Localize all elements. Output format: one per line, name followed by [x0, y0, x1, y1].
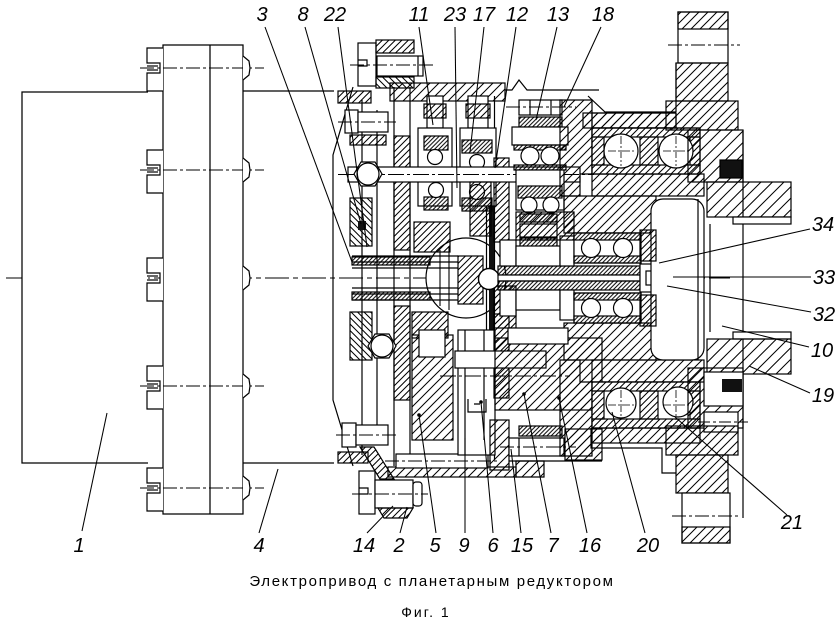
- bolt D head slot: [359, 488, 368, 494]
- carrier arm upper: [414, 222, 450, 252]
- seal target 8: [358, 221, 366, 230]
- leader 23: [455, 27, 457, 188]
- small bearing lower ball2: [614, 299, 633, 318]
- bolt row y=170 notch: [147, 150, 163, 193]
- brake adjuster lower: [371, 335, 393, 357]
- bolt D end cap: [413, 482, 422, 506]
- bottom foot column: [676, 455, 728, 493]
- stack neck cap1: [424, 104, 446, 118]
- gear13 cap bottom: [514, 165, 566, 170]
- leader 12: [495, 27, 516, 168]
- gear13 hub white row: [520, 224, 557, 237]
- bottom step wedge: [516, 461, 544, 477]
- svg-text:10: 10: [811, 340, 833, 362]
- output shaft lower band: [498, 281, 640, 290]
- bolt B axis: [338, 121, 396, 123]
- bottom hatch strip: [388, 467, 516, 477]
- housing left of lower big bearing: [560, 360, 592, 456]
- hatched pad lower: [350, 312, 372, 360]
- stack2 ball2: [470, 185, 485, 200]
- stack1 ball2: [429, 183, 444, 198]
- top housing bump: [505, 80, 599, 90]
- leader 8: [305, 27, 361, 224]
- stack2 hatch band1: [462, 140, 492, 153]
- bolt D hatched tip: [378, 508, 413, 518]
- big bearing lower ball2 cross: [663, 404, 689, 406]
- svg-text:32: 32: [813, 304, 835, 326]
- svg-text:21: 21: [780, 512, 803, 534]
- bolt A shaft end: [417, 56, 419, 76]
- sun shaft wall hatch lower: [494, 314, 509, 398]
- leader 7: [524, 394, 551, 533]
- stack2 ball1: [470, 155, 485, 170]
- small bearing upper cap top: [574, 233, 641, 240]
- seal dark lower: [722, 379, 742, 392]
- bottom bolt row E: [396, 454, 488, 468]
- bearing underslab extra: [592, 428, 700, 443]
- pin axis upper: [338, 174, 594, 176]
- leader 4: [259, 469, 278, 533]
- svg-text:15: 15: [511, 535, 534, 557]
- small bearing lower cap bottom: [574, 316, 641, 323]
- bolt A head slot: [358, 60, 367, 66]
- seal housing lower: [704, 372, 743, 406]
- planet stack1 neck: [427, 96, 443, 128]
- carrier pin bar lower: [455, 351, 546, 368]
- stack1 hatch band2: [424, 197, 448, 210]
- big bearing upper ball1 cross: [608, 150, 634, 152]
- top foot column: [676, 63, 728, 101]
- support rib hatch: [360, 447, 394, 479]
- svg-text:17: 17: [473, 4, 496, 26]
- svg-text:19: 19: [812, 385, 834, 407]
- carrier pin bar upper: [348, 167, 580, 182]
- bolt row y=170 axis: [140, 169, 264, 171]
- leader 32: [667, 286, 811, 312]
- bolt B head: [345, 110, 358, 133]
- leader 33: [673, 276, 811, 278]
- svg-text:22: 22: [323, 4, 346, 26]
- horn top hatch: [707, 182, 791, 217]
- spline hatch upper: [352, 257, 430, 265]
- spacer mid hatch upper: [516, 212, 574, 240]
- gear13 column: [516, 170, 564, 210]
- bolt row y=278 head right: [243, 266, 250, 290]
- bolt row y=488 axis: [140, 487, 264, 489]
- CV joint cavity: [426, 238, 506, 318]
- stack2 hub hatch: [470, 182, 491, 236]
- planet stack2 body upper: [460, 128, 496, 206]
- lower sun gear bolt: [509, 438, 564, 456]
- svg-text:33: 33: [813, 267, 835, 289]
- gear13 axis: [506, 106, 576, 108]
- leader 18: [564, 27, 601, 107]
- lower gear axis: [500, 446, 576, 448]
- shaft tip end: [662, 268, 669, 288]
- plug bolt lower: [704, 412, 738, 432]
- CV cage hatch: [458, 256, 483, 304]
- small bearing lower box: [574, 293, 641, 323]
- pin axis lower: [440, 375, 570, 377]
- leader 13: [536, 27, 557, 120]
- under-bearing hatch upper: [592, 174, 704, 196]
- svg-text:6: 6: [487, 535, 499, 557]
- big bearing lower wedge left: [592, 391, 604, 419]
- stack neck cap2: [466, 104, 490, 118]
- big bearing upper wedge right: [690, 137, 700, 165]
- svg-text:12: 12: [506, 4, 528, 26]
- horn top lip: [733, 217, 791, 224]
- big bearing upper ball1: [604, 134, 638, 168]
- housing left of big bearing: [560, 100, 592, 196]
- plate bolts group: [140, 48, 264, 511]
- housing left wall: [393, 87, 395, 466]
- output shaft bore: [498, 275, 640, 281]
- brake adjuster lower hex: [368, 334, 396, 358]
- bolt C head: [342, 423, 356, 447]
- svg-text:18: 18: [592, 4, 614, 26]
- flange upper body: [688, 130, 743, 182]
- leader 15: [511, 449, 521, 533]
- central ball: [479, 269, 500, 290]
- shaft tip block: [640, 264, 668, 292]
- bolt row y=68 axis: [140, 67, 264, 69]
- spline shaft lines: [352, 255, 458, 257]
- brake adjuster upper: [357, 163, 379, 185]
- stack2 lower inner lines: [465, 330, 484, 455]
- gearbox left: [333, 40, 516, 518]
- output shaft upper band: [498, 266, 640, 275]
- leader 2: [400, 507, 407, 533]
- carrier spline bar: [489, 182, 494, 374]
- bolt C axis: [336, 434, 398, 436]
- hatched column upper: [394, 136, 410, 250]
- small bearing lower cap top: [574, 293, 641, 300]
- gear13 hatch band: [519, 117, 562, 127]
- carrier arm lower: [412, 312, 448, 338]
- svg-text:23: 23: [443, 4, 466, 26]
- hatched band top-left: [338, 91, 371, 103]
- lower gear hatch mass: [495, 338, 602, 410]
- hatched band bottom-left: [338, 452, 368, 463]
- svg-text:20: 20: [636, 535, 659, 557]
- bolt row y=386 head right: [243, 374, 250, 398]
- big bearing lower cap bottom: [592, 419, 700, 428]
- leader 6: [481, 402, 493, 533]
- carrier wall left: [486, 96, 488, 460]
- big bearing lower wedge mid: [640, 391, 658, 419]
- horn bottom hatch: [707, 339, 791, 374]
- retainer hatch lower: [640, 295, 656, 326]
- leader 11: [419, 27, 433, 125]
- bolt row y=68 slot: [147, 65, 158, 67]
- big bearing lower wedge right: [690, 391, 700, 419]
- bolt row y=170 head right: [243, 158, 250, 182]
- bolt B shaft: [358, 112, 388, 132]
- bolt A shaft: [377, 56, 423, 76]
- svg-text:3: 3: [256, 4, 267, 26]
- top foot pad hatch: [678, 12, 728, 29]
- lower step hatch right: [565, 429, 602, 460]
- hub hatch upper: [564, 196, 656, 233]
- slab over bearing upper: [592, 113, 676, 128]
- leader 10: [722, 326, 809, 347]
- housing left wall2: [409, 87, 411, 466]
- svg-text:5: 5: [429, 535, 441, 557]
- shaft tip inner: [646, 271, 662, 285]
- bolt row y=278 slot: [147, 275, 158, 277]
- lower step hatch left: [490, 420, 509, 470]
- flange lower body: [688, 368, 743, 428]
- flange plate 4: [163, 45, 243, 514]
- lower housing bottom line: [509, 460, 602, 462]
- wire bottom connector: [243, 462, 334, 464]
- leader 16: [559, 398, 587, 533]
- big bearing upper ball2: [659, 134, 693, 168]
- spacer ring3 lower: [560, 290, 574, 320]
- spacer ring2 lower: [516, 290, 560, 310]
- big bearing lower ball2: [663, 387, 693, 417]
- plate mid line: [209, 45, 211, 514]
- cavity left wall: [588, 96, 676, 112]
- horn bottom lip: [733, 332, 791, 339]
- svg-text:34: 34: [812, 214, 834, 236]
- bolt row y=170 slot: [147, 167, 158, 169]
- big bearing lower box: [592, 382, 700, 428]
- bottom foot column wide: [666, 426, 738, 455]
- bolt row y=278 notch: [147, 258, 163, 301]
- lower gear bolt inner: [518, 438, 520, 456]
- svg-text:8: 8: [297, 4, 308, 26]
- stack2 hatch band2: [462, 198, 492, 211]
- carrier wall right: [494, 96, 496, 460]
- plug bolt axis: [698, 421, 748, 423]
- stack1 lower neck: [419, 330, 445, 357]
- planet stack2 neck: [468, 96, 488, 128]
- gear13 hub hatch row1: [520, 214, 557, 222]
- spacer ring3 upper: [560, 236, 574, 266]
- brake adjuster upper hex: [354, 162, 382, 186]
- big bearing lower ball1 cross: [608, 404, 634, 406]
- leader 5: [419, 415, 436, 533]
- svg-text:9: 9: [458, 535, 469, 557]
- hatched column lower: [394, 306, 410, 400]
- leader 22: [338, 27, 367, 247]
- bolt row y=488 notch: [147, 468, 163, 511]
- stack2 lower column: [458, 330, 495, 455]
- bolt D head: [359, 471, 375, 514]
- big bearing upper box: [592, 128, 700, 174]
- clutch bell outline: [333, 87, 353, 466]
- leader 9: [464, 438, 466, 533]
- flange inner lines: [698, 199, 710, 360]
- svg-text:16: 16: [579, 535, 602, 557]
- bolt A bracket hatch: [376, 77, 414, 88]
- bell inner wall2: [376, 110, 378, 445]
- small bearing upper ball2: [614, 239, 633, 258]
- bolt row y=68 head right: [243, 56, 250, 80]
- big bearing upper ball2 cross: [663, 150, 689, 152]
- top foot axis: [668, 44, 740, 46]
- motor body 1: [22, 92, 148, 463]
- flange groove: [651, 199, 704, 360]
- gear13 hub hatch row2: [520, 238, 557, 250]
- big bearing lower ball1: [606, 388, 636, 418]
- leader 34: [659, 229, 810, 263]
- flange right edge: [742, 130, 744, 518]
- bolt row y=386 axis: [140, 385, 264, 387]
- bolt row y=68 notch: [147, 48, 163, 91]
- gear stacks: [338, 80, 700, 477]
- small bearing lower ball1: [582, 299, 601, 318]
- bolt C shaft: [356, 425, 388, 445]
- leader 1: [82, 413, 107, 531]
- big bearing upper cap top: [592, 128, 700, 137]
- cavity slab: [583, 113, 676, 128]
- planet stack1 body upper: [418, 128, 452, 206]
- top foot column wide: [666, 101, 738, 130]
- gear13 ball row2 b: [543, 197, 559, 213]
- over-bearing hatch lower: [592, 360, 704, 382]
- bottom step outline: [591, 428, 676, 473]
- bolt A axis: [350, 64, 434, 66]
- bell inner wall: [361, 100, 363, 455]
- svg-text:Фиг. 1: Фиг. 1: [401, 604, 450, 620]
- seal dark upper: [720, 160, 742, 178]
- bottom foot pad hatch: [682, 527, 730, 543]
- spacer ring2 upper: [516, 246, 560, 266]
- bolt row y=386 slot: [147, 383, 158, 385]
- small bearing upper cap bottom: [574, 256, 641, 263]
- hatched pad upper: [350, 198, 372, 246]
- small bearing upper box: [574, 233, 641, 263]
- gear13 cap top: [514, 145, 566, 150]
- bolt row E axis: [385, 460, 500, 462]
- spline hatch lower: [352, 292, 430, 300]
- leader 21: [675, 417, 787, 515]
- svg-text:13: 13: [547, 4, 569, 26]
- svg-text:11: 11: [409, 4, 430, 26]
- bolt row y=488 head right: [243, 476, 250, 500]
- top foot pad: [678, 12, 728, 63]
- big bearing upper wedge left: [592, 137, 604, 165]
- retainer hatch upper: [640, 230, 656, 261]
- bottom foot pad: [682, 493, 730, 543]
- leader 19: [749, 366, 810, 393]
- big bearing upper cap bottom: [592, 165, 700, 174]
- svg-text:1: 1: [73, 535, 84, 557]
- small bearing upper ball1: [582, 239, 601, 258]
- hub hatch lower: [564, 323, 656, 360]
- gear13 ball row2 a: [521, 197, 537, 213]
- spacer ring1 upper: [500, 240, 516, 266]
- sun shaft wall hatch upper: [494, 158, 509, 242]
- svg-text:4: 4: [253, 535, 264, 557]
- gear13 column hatch: [518, 186, 562, 198]
- big bearing lower cap top: [592, 382, 700, 391]
- bolt D body: [375, 480, 413, 508]
- gear13 ball1: [521, 147, 539, 165]
- leader 14: [367, 506, 393, 533]
- big bearing upper wedge mid: [640, 137, 658, 165]
- leader 3: [265, 27, 352, 262]
- top housing band: [390, 83, 505, 101]
- svg-text:Электропривод с планетарным ре: Электропривод с планетарным редуктором: [249, 573, 614, 590]
- svg-text:14: 14: [353, 535, 375, 557]
- bolt A washer hatch: [376, 40, 414, 53]
- bolt A head: [358, 43, 376, 86]
- wire top connector: [243, 90, 334, 92]
- stack1 ball1: [428, 150, 443, 165]
- svg-text:7: 7: [547, 535, 559, 557]
- bottom foot axis: [672, 515, 740, 517]
- cavity right wall: [675, 63, 677, 112]
- carrier bracket lower: [468, 399, 486, 412]
- bolt B lower hatch: [350, 135, 386, 145]
- gear13 ball2: [541, 147, 559, 165]
- svg-text:2: 2: [392, 535, 404, 557]
- hub hatch right of ball: [494, 286, 516, 328]
- stack1 hatch band1: [424, 136, 448, 150]
- spacer mid hatch lower: [508, 328, 568, 344]
- brake block lower: [412, 335, 453, 440]
- caption: [249, 573, 614, 620]
- shaft and right section: [498, 12, 791, 543]
- lower gear hatch band: [519, 426, 562, 436]
- gear13 body: [512, 127, 568, 145]
- bolt D axis: [352, 493, 428, 495]
- leaders and labels: [82, 27, 811, 533]
- leader 20: [612, 412, 645, 533]
- main axis centerline: [6, 277, 730, 279]
- bolt row y=488 slot: [147, 485, 158, 487]
- sun gear13 bolt: [519, 100, 562, 115]
- leader 17: [470, 27, 484, 152]
- spacer ring1 lower: [500, 290, 516, 316]
- bolt row y=386 notch: [147, 366, 163, 409]
